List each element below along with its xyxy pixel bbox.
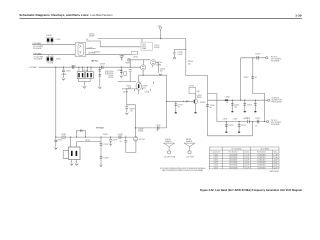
svg-text:16.8 MHZ: 16.8 MHZ: [29, 67, 36, 69]
svg-text:2113741B27: 2113741B27: [257, 165, 266, 167]
svg-text:16.8: 16.8: [128, 88, 131, 90]
svg-text:(TO BOTTOM): (TO BOTTOM): [164, 157, 176, 159]
svg-text:29.7-42 (MHz): 29.7-42 (MHz): [231, 149, 242, 151]
svg-text:0.1UF: 0.1UF: [178, 54, 183, 56]
svg-text:C3726: C3726: [156, 125, 161, 127]
svg-text:L3705: L3705: [189, 86, 194, 88]
svg-text:8485754Z01: 8485754Z01: [270, 171, 280, 173]
svg-text:L3708: L3708: [61, 134, 66, 136]
svg-text:2113741B15: 2113741B15: [229, 157, 238, 159]
svg-text:C3722: C3722: [255, 118, 260, 120]
svg-text:35-50 MHZ: 35-50 MHZ: [33, 48, 41, 50]
svg-text:18: 18: [255, 125, 257, 127]
svg-text:R3708: R3708: [200, 102, 205, 104]
svg-text:2113741B17: 2113741B17: [257, 160, 266, 162]
svg-text:36 pF: 36 pF: [245, 162, 249, 164]
svg-text:Schematic Diagrams, Overlays,: Schematic Diagrams, Overlays, and Parts …: [19, 13, 89, 17]
svg-text:C3724: C3724: [241, 125, 246, 127]
svg-text:120: 120: [234, 106, 237, 108]
svg-text:270: 270: [130, 110, 133, 112]
svg-text:R3703: R3703: [125, 62, 130, 64]
svg-text:L3706: L3706: [223, 118, 228, 120]
svg-text:C3731: C3731: [57, 140, 62, 142]
svg-text:C3723: C3723: [228, 125, 233, 127]
svg-text:7.5 pF: 7.5 pF: [245, 154, 249, 156]
svg-text:13 pF: 13 pF: [245, 157, 249, 159]
svg-text:LOW BAND: LOW BAND: [33, 53, 43, 56]
svg-text:C3707: C3707: [119, 56, 124, 58]
svg-text:L3704: L3704: [225, 97, 230, 99]
svg-text:Figure 3-52. Low Band (29.7-42: Figure 3-52. Low Band (29.7-42/35-50 MHz…: [200, 188, 302, 192]
svg-text:L3707: L3707: [233, 118, 238, 120]
svg-text:C3727: C3727: [103, 144, 108, 146]
svg-text:18: 18: [156, 130, 158, 132]
svg-text:2113741B23: 2113741B23: [257, 162, 266, 164]
svg-text:18: 18: [226, 102, 228, 104]
svg-text:1-39: 1-39: [295, 13, 301, 17]
svg-text:C3711: C3711: [145, 92, 150, 94]
svg-text:Y3700: Y3700: [83, 70, 88, 72]
svg-text:C3715: C3715: [247, 104, 252, 106]
svg-text:R3700: R3700: [62, 74, 67, 76]
svg-text:Value: Value: [274, 152, 278, 154]
svg-text:16 pF: 16 pF: [274, 160, 278, 162]
svg-text:Value: Value: [245, 152, 249, 154]
svg-text:35-50 MHZ: 35-50 MHZ: [271, 124, 279, 126]
svg-text:18: 18: [255, 77, 257, 79]
svg-text:FL3700: FL3700: [46, 35, 52, 37]
svg-text:C3723: C3723: [214, 162, 219, 164]
svg-text:C3720: C3720: [214, 154, 219, 156]
svg-text:C3728: C3728: [103, 158, 108, 160]
svg-text:2113741B21: 2113741B21: [229, 160, 238, 162]
svg-text:C3732: C3732: [103, 134, 108, 136]
svg-text:REC VCO: REC VCO: [92, 61, 99, 63]
svg-text:FROM U3501: FROM U3501: [272, 101, 282, 103]
svg-text:29.7-42: 29.7-42: [139, 139, 145, 141]
svg-text:75 pF: 75 pF: [245, 167, 249, 169]
svg-text:FL3701: FL3701: [48, 62, 54, 64]
svg-text:L3702: L3702: [133, 56, 138, 58]
svg-text:2113741B33: 2113741B33: [229, 167, 238, 169]
svg-text:C3729: C3729: [112, 140, 117, 142]
svg-text:45P86: 45P86: [197, 97, 202, 99]
svg-text:2113741B25: 2113741B25: [229, 162, 238, 164]
svg-text:2113741B05: 2113741B05: [257, 154, 266, 156]
svg-text:C3722: C3722: [214, 160, 219, 162]
svg-text:C3701: C3701: [71, 65, 76, 67]
svg-text:2113741B11: 2113741B11: [257, 157, 265, 159]
svg-text:C3709: C3709: [123, 92, 128, 94]
svg-text:9.1 pF: 9.1 pF: [273, 157, 277, 159]
svg-text:L3709: L3709: [85, 140, 90, 142]
svg-text:C3725: C3725: [243, 118, 248, 120]
svg-text:C3719: C3719: [243, 77, 248, 79]
svg-text:45P86: 45P86: [138, 131, 143, 133]
svg-text:C3703: C3703: [100, 64, 105, 66]
svg-text:C3721: C3721: [214, 157, 219, 159]
svg-text:SHIELD: SHIELD: [186, 141, 193, 143]
svg-text:16.8 MHZ: 16.8 MHZ: [88, 52, 95, 54]
svg-text:SHIELD: SHIELD: [165, 141, 172, 143]
svg-text:2113741B31: 2113741B31: [257, 167, 266, 169]
svg-text:35-50 (MHz): 35-50 (MHz): [260, 149, 269, 151]
svg-text:35-50 MHZ: 35-50 MHZ: [34, 58, 42, 60]
svg-text:R3702: R3702: [108, 77, 113, 79]
svg-text:C3725: C3725: [214, 167, 219, 169]
svg-text:LO IN: LO IN: [88, 47, 93, 49]
svg-text:51 pF: 51 pF: [245, 165, 249, 167]
svg-text:43 pF: 43 pF: [274, 165, 278, 167]
svg-text:30 pF: 30 pF: [274, 162, 278, 164]
svg-text:2113741B09: 2113741B09: [229, 154, 238, 156]
svg-text:C3706: C3706: [117, 70, 122, 72]
svg-text:18: 18: [210, 107, 212, 109]
svg-text:(TO TOP): (TO TOP): [187, 157, 195, 159]
svg-text:100: 100: [188, 63, 191, 65]
svg-text:45P86: 45P86: [156, 65, 161, 67]
svg-text:TX VCO: TX VCO: [96, 127, 104, 129]
svg-text:0.01UF: 0.01UF: [154, 47, 160, 49]
svg-text:L3701: L3701: [56, 58, 61, 60]
svg-text:5.1 pF: 5.1 pF: [273, 154, 277, 156]
svg-text:C3730: C3730: [118, 134, 123, 136]
svg-text:390: 390: [197, 91, 200, 93]
svg-text:C3702: C3702: [66, 70, 71, 72]
svg-text:62 pF: 62 pF: [274, 167, 278, 169]
svg-text:24 pF: 24 pF: [245, 160, 249, 162]
svg-text:Low Band Section: Low Band Section: [91, 13, 113, 17]
svg-text:LOW BAND: LOW BAND: [32, 42, 42, 45]
svg-text:35-50 MHZ: 35-50 MHZ: [271, 60, 279, 62]
svg-text:1000PF: 1000PF: [89, 35, 95, 37]
svg-text:C3720: C3720: [255, 53, 260, 55]
svg-text:0.01: 0.01: [142, 88, 145, 90]
svg-text:L3700: L3700: [56, 39, 61, 41]
svg-text:L3: L3: [86, 39, 88, 41]
svg-text:18: 18: [120, 141, 122, 143]
svg-text:C3724: C3724: [214, 165, 219, 167]
svg-text:2113741B29: 2113741B29: [229, 165, 238, 167]
svg-text:18: 18: [178, 107, 180, 109]
